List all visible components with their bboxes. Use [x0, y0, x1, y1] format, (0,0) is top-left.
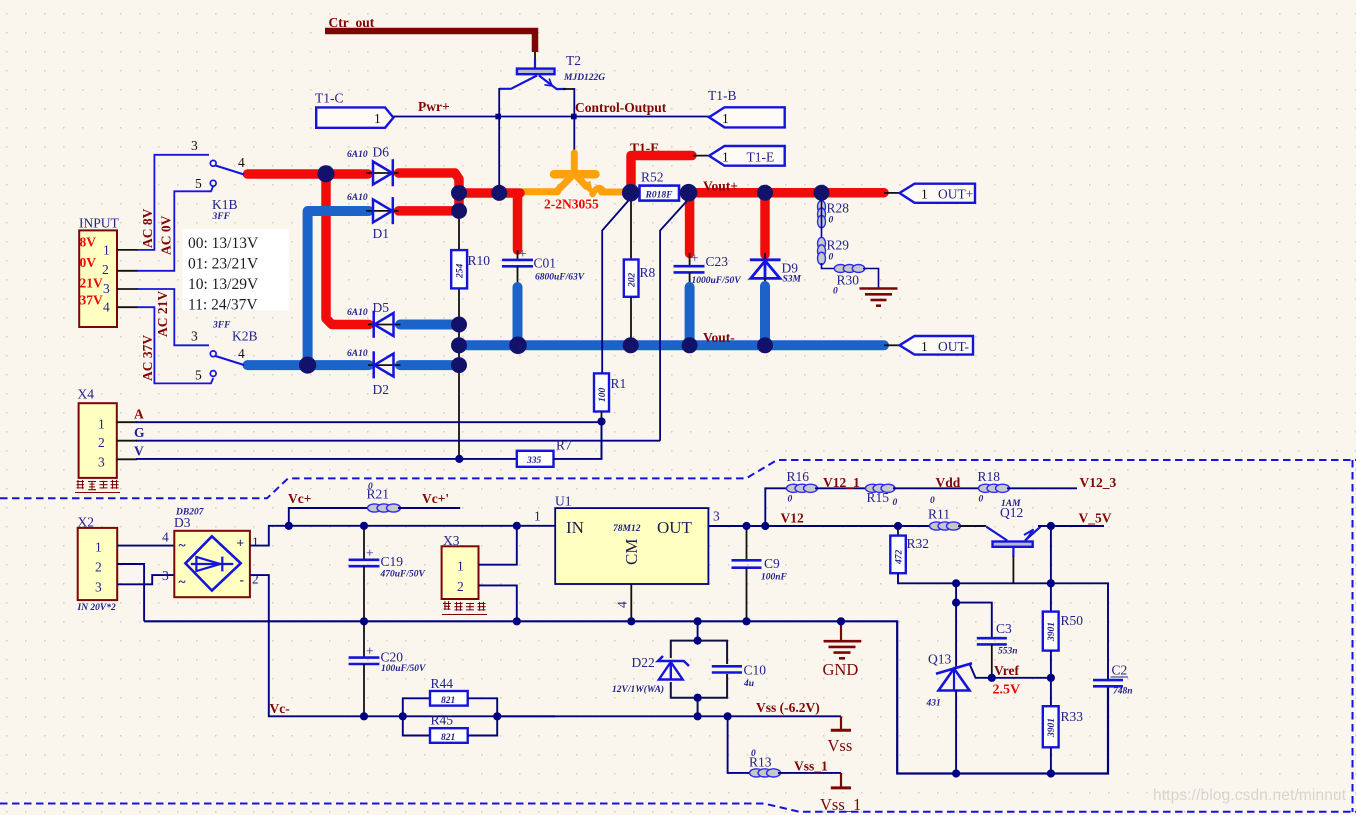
svg-text:0: 0 — [833, 287, 838, 297]
svg-text:R52: R52 — [641, 170, 664, 185]
svg-text:0V: 0V — [80, 255, 97, 270]
wire stub to T1-E entry — [693, 155, 710, 157]
capacitor C20 — [349, 621, 426, 716]
svg-text:821: 821 — [441, 733, 455, 743]
svg-text:R29: R29 — [827, 238, 850, 253]
svg-text:21V: 21V — [80, 276, 104, 291]
svg-text:Control-Output: Control-Output — [575, 100, 667, 115]
svg-text:CM: CM — [622, 539, 641, 565]
wire R8 bottom — [630, 297, 632, 345]
svg-text:3: 3 — [191, 329, 198, 344]
svg-text:R8: R8 — [640, 265, 656, 280]
junction node bus dots — [299, 165, 830, 374]
svg-text:2: 2 — [95, 560, 102, 575]
wire GND rail — [144, 621, 954, 773]
svg-text:472: 472 — [895, 550, 905, 566]
svg-text:AC 21V: AC 21V — [155, 291, 170, 337]
svg-text:0: 0 — [368, 482, 373, 492]
section separator dashed — [0, 460, 1356, 498]
connector X4 — [79, 403, 117, 478]
svg-text:D5: D5 — [373, 300, 390, 315]
wire Vss_1 — [778, 772, 841, 774]
svg-text:3: 3 — [713, 509, 720, 524]
svg-text:R50: R50 — [1061, 613, 1084, 628]
wire red bus D6/D1 cathodes — [399, 173, 521, 250]
wire D9 red lead — [760, 197, 770, 255]
svg-text:5: 5 — [195, 176, 202, 191]
svg-text:1: 1 — [95, 540, 102, 555]
wire R32 top stub — [897, 526, 899, 536]
wire R16 branch — [765, 488, 789, 526]
junction T2 emitter — [571, 114, 577, 120]
svg-text:Vref: Vref — [994, 663, 1019, 678]
resistor R29 (ferrite chain) — [818, 237, 826, 264]
svg-text:0: 0 — [930, 496, 935, 506]
svg-text:C23: C23 — [706, 254, 729, 269]
wire INPUT pin2 stub — [117, 270, 138, 272]
svg-text:Vss: Vss — [828, 736, 853, 755]
wire AC 0V — [137, 186, 213, 271]
relay switch K1B — [191, 138, 245, 222]
svg-text:R11: R11 — [928, 507, 950, 522]
sheet entry OUT+ — [900, 184, 976, 203]
svg-text:Q13: Q13 — [928, 652, 951, 667]
svg-text:R1: R1 — [611, 376, 627, 391]
svg-text:4: 4 — [238, 346, 245, 361]
svg-text:T1-B: T1-B — [708, 88, 737, 103]
wire Vc+' — [398, 507, 460, 509]
svg-text:V12_3: V12_3 — [1080, 475, 1117, 490]
svg-text:2: 2 — [102, 262, 109, 277]
svg-text:R44: R44 — [431, 676, 454, 691]
wire stub to OUT- — [884, 344, 900, 346]
svg-text:00: 13/13V: 00: 13/13V — [188, 235, 259, 252]
svg-text:-: - — [240, 572, 245, 587]
svg-text:2-2N3055: 2-2N3055 — [544, 197, 599, 212]
wire T1-E thick red — [631, 156, 692, 194]
sheet entry T1-E — [709, 146, 785, 166]
svg-text:6A10: 6A10 — [347, 349, 368, 359]
svg-text:+: + — [237, 536, 245, 551]
svg-text:3901: 3901 — [1047, 622, 1057, 642]
svg-text:6A10: 6A10 — [347, 150, 368, 160]
wire blue K2B bus to D2 — [248, 360, 370, 370]
svg-text:Pwr+: Pwr+ — [418, 99, 450, 114]
wire blue D5 out — [400, 320, 458, 330]
bridge rectifier D3 — [162, 530, 259, 598]
svg-text:https://blog.csdn.net/minnut: https://blog.csdn.net/minnut — [1153, 787, 1347, 804]
svg-text:R45: R45 — [431, 713, 454, 728]
capacitor C19 — [349, 527, 426, 622]
wire Vout+ thick red bus — [697, 188, 884, 198]
svg-text:R28: R28 — [827, 201, 850, 216]
svg-text:Vout-: Vout- — [703, 330, 735, 345]
resistor R16 (ferrite chain) — [787, 484, 818, 492]
svg-text:10: 13/29V: 10: 13/29V — [188, 276, 259, 293]
wire X4 pin2 stub — [117, 440, 137, 442]
diode D6 — [347, 145, 399, 187]
wire Vss rail — [497, 715, 841, 717]
svg-text:Vout+: Vout+ — [703, 179, 738, 194]
svg-text:37V: 37V — [80, 293, 104, 308]
svg-text:Vdd: Vdd — [936, 475, 961, 490]
svg-text:T2: T2 — [566, 53, 581, 68]
svg-text:Vc+': Vc+' — [422, 491, 449, 506]
wire X2 pin3 to bridge — [117, 575, 174, 584]
resistor R10 — [451, 250, 490, 288]
svg-text:335: 335 — [526, 456, 542, 466]
svg-text:IN 20V*2: IN 20V*2 — [77, 602, 117, 613]
svg-text:2: 2 — [252, 572, 259, 587]
wire sense A diagonal from node — [602, 198, 631, 373]
resistor R52 — [640, 186, 680, 201]
wire bridge minus to Vc- rail — [250, 575, 555, 716]
svg-text:4: 4 — [162, 530, 169, 545]
wire bottom rail right — [954, 686, 1108, 774]
svg-text:+: + — [519, 246, 527, 261]
svg-text:12V/1W(WA): 12V/1W(WA) — [612, 684, 664, 695]
resistor R11 (ferrite chain) — [930, 522, 961, 530]
svg-text:C9: C9 — [764, 556, 780, 571]
svg-text:6A10: 6A10 — [347, 193, 368, 203]
wire V12_1 — [815, 487, 868, 489]
capacitor C3 — [977, 621, 1018, 678]
svg-text:1: 1 — [921, 339, 928, 354]
wire X3 pin2 — [479, 585, 517, 621]
resistor R50 — [1043, 583, 1083, 678]
svg-text:OUT+: OUT+ — [938, 187, 973, 202]
svg-text:Vss (-6.2V): Vss (-6.2V) — [756, 700, 820, 715]
wire R28-R29 — [821, 196, 823, 240]
wire Vref line — [991, 677, 1051, 679]
wire node A to V line — [601, 422, 603, 459]
section separator dashed right edge — [1352, 460, 1354, 812]
svg-text:+: + — [691, 251, 699, 266]
svg-text:R30: R30 — [837, 273, 860, 288]
svg-text:T1-C: T1-C — [315, 91, 344, 106]
Q1 emitter arrowhead — [581, 181, 594, 196]
svg-text:U1: U1 — [555, 494, 572, 509]
power symbol Vss_1 — [820, 773, 861, 814]
svg-text:3: 3 — [103, 281, 110, 296]
resistor R8 — [624, 260, 656, 297]
svg-text:MJD122G: MJD122G — [563, 73, 605, 83]
svg-text:C01: C01 — [534, 256, 557, 271]
svg-text:100uF/50V: 100uF/50V — [381, 664, 426, 674]
diode D1 — [347, 193, 399, 241]
wire base stub black — [534, 52, 536, 60]
wire R1 bottom stub — [601, 412, 603, 422]
transistor Q13 (TL431) — [926, 652, 992, 774]
svg-text:01: 23/21V: 01: 23/21V — [188, 256, 259, 273]
svg-text:V12_1: V12_1 — [823, 475, 860, 490]
wire X4 pin3 stub — [117, 458, 137, 460]
wire R13 branch — [728, 716, 751, 773]
power symbol Vss — [828, 716, 853, 755]
svg-text:100nF: 100nF — [761, 573, 788, 583]
svg-text:0: 0 — [751, 749, 756, 759]
svg-text:254: 254 — [456, 264, 466, 280]
earth ground — [860, 289, 898, 306]
svg-text:3901: 3901 — [1047, 718, 1057, 738]
truth table note — [183, 229, 289, 313]
diode D5 — [347, 300, 401, 338]
transistor Q1 2N3055 (orange) — [522, 153, 626, 194]
capacitor C01 — [502, 246, 585, 288]
svg-text:3: 3 — [95, 580, 102, 595]
relay switch K2B — [191, 321, 258, 383]
wire net A — [136, 421, 602, 423]
wire red K1B to D6 — [248, 169, 369, 179]
svg-text:Vss_1: Vss_1 — [794, 759, 828, 774]
wire AC 8V — [137, 155, 209, 250]
svg-text:V: V — [134, 444, 144, 459]
wire red AC8V to D5 — [326, 175, 369, 325]
wire blue riser to D1 — [308, 211, 369, 364]
connector X2 — [78, 528, 118, 600]
svg-text:V12: V12 — [781, 511, 804, 526]
svg-text:3: 3 — [98, 455, 105, 470]
svg-text:6800uF/63V: 6800uF/63V — [535, 273, 585, 283]
sheet entry T1-B — [708, 88, 785, 127]
capacitor C2 — [1093, 663, 1133, 697]
svg-text:D1: D1 — [373, 226, 390, 241]
svg-text:431: 431 — [926, 699, 941, 709]
wire Ctr_out (thick maroon) — [325, 31, 535, 52]
svg-text:202: 202 — [628, 273, 638, 289]
svg-text:D2: D2 — [373, 382, 390, 397]
svg-text:0: 0 — [979, 495, 984, 505]
svg-text:R018F: R018F — [645, 191, 674, 201]
svg-text:INPUT: INPUT — [79, 216, 120, 231]
section separator dashed bottom — [0, 804, 1356, 812]
wire X2 pin1 to bridge — [117, 545, 174, 547]
regulator U1 78M12 — [534, 508, 720, 608]
svg-text:3: 3 — [162, 568, 169, 583]
svg-text:Vc+: Vc+ — [288, 491, 311, 506]
svg-text:4u: 4u — [743, 679, 754, 689]
svg-text:11: 24/37V: 11: 24/37V — [188, 297, 258, 314]
svg-text:Vc-: Vc- — [270, 701, 290, 716]
resistor R28 (ferrite chain) — [818, 201, 826, 228]
svg-text:R16: R16 — [787, 469, 810, 484]
svg-text:1: 1 — [98, 417, 105, 432]
svg-text:0: 0 — [829, 253, 834, 263]
svg-text:748n: 748n — [1113, 687, 1133, 697]
svg-text:4: 4 — [238, 155, 245, 170]
wire R32 bottom / feedback line — [898, 573, 1108, 680]
svg-text:R18: R18 — [978, 469, 1001, 484]
connector INPUT — [79, 230, 117, 327]
wire U1 pin4 — [630, 584, 632, 621]
resistor R44 — [403, 676, 497, 716]
resistor R1 — [594, 373, 626, 411]
wire D22 block top — [697, 621, 699, 640]
wire X3 pin1 — [479, 526, 517, 565]
svg-text:OUT-: OUT- — [938, 339, 970, 354]
wire sense G diagonal from node — [660, 198, 690, 441]
label 显示插座 (connector name) — [75, 480, 120, 493]
wire Vout- thick blue bus — [459, 340, 884, 350]
wire AC 21V — [137, 289, 209, 345]
svg-text:D3: D3 — [174, 515, 191, 530]
svg-text:T1-E: T1-E — [747, 150, 775, 165]
power symbol GND — [823, 621, 862, 679]
wire blue D2 out — [400, 360, 458, 370]
svg-text:D6: D6 — [373, 145, 390, 160]
capacitor C23 — [674, 251, 742, 289]
svg-text:AC 0V: AC 0V — [159, 215, 174, 255]
svg-text:C2: C2 — [1112, 663, 1128, 678]
svg-text:470uF/50V: 470uF/50V — [380, 570, 426, 580]
svg-text:1: 1 — [722, 150, 729, 165]
svg-text:1: 1 — [252, 535, 259, 550]
svg-text:3FF: 3FF — [212, 212, 231, 222]
wire V_5V — [1038, 525, 1104, 527]
svg-text:821: 821 — [441, 696, 455, 706]
svg-text:553n: 553n — [998, 647, 1018, 657]
svg-text:1: 1 — [374, 111, 381, 126]
svg-text:1AM: 1AM — [1001, 499, 1021, 509]
svg-text:~: ~ — [179, 538, 186, 553]
wire Vc+ branch — [289, 508, 370, 526]
wire Vdd — [893, 487, 981, 489]
wire Pwr+ down to bus — [498, 117, 500, 192]
resistor R21 (ferrite chain) — [368, 504, 401, 512]
svg-text:3FF: 3FF — [212, 321, 231, 331]
svg-text:K1B: K1B — [212, 197, 238, 212]
svg-text:S3M: S3M — [783, 275, 802, 285]
svg-text:OUT: OUT — [657, 518, 693, 537]
svg-text:1: 1 — [921, 187, 928, 202]
label 风扇插座 (connector name) — [442, 601, 487, 614]
wire D9 blue lead — [760, 286, 770, 344]
svg-text:1: 1 — [103, 243, 110, 258]
svg-text:0: 0 — [893, 498, 898, 508]
wire V5V down to feedback — [1050, 526, 1052, 583]
svg-text:0: 0 — [829, 216, 834, 226]
svg-text:4: 4 — [103, 300, 110, 315]
wire stub to OUT+ — [884, 192, 900, 194]
svg-text:V_5V: V_5V — [1079, 511, 1112, 526]
wire D22/C10 loop — [671, 641, 727, 717]
svg-text:C19: C19 — [381, 554, 404, 569]
junction thin-wire squares — [455, 417, 605, 463]
svg-text:8V: 8V — [80, 235, 97, 250]
wire INPUT pin4 stub — [117, 306, 138, 308]
resistor R15 (ferrite chain) — [866, 484, 896, 492]
svg-text:78M12: 78M12 — [613, 524, 641, 534]
wire C23 red lead — [685, 197, 695, 254]
diode D22 (zener) — [612, 655, 689, 695]
svg-text:R7: R7 — [556, 438, 572, 453]
svg-text:+: + — [366, 546, 374, 561]
svg-text:AC 8V: AC 8V — [140, 208, 155, 248]
svg-text:R33: R33 — [1061, 709, 1084, 724]
wire X2 pin2 to gnd rail — [117, 564, 144, 621]
wire V12 — [708, 525, 985, 527]
svg-text:5: 5 — [195, 368, 202, 383]
wire V12_3 — [1007, 487, 1077, 489]
transistor T2 — [499, 59, 574, 89]
wire C3 branch — [956, 603, 992, 639]
wire INPUT pin3 stub — [117, 288, 138, 290]
svg-text:GND: GND — [823, 660, 859, 679]
svg-text:2: 2 — [457, 579, 464, 594]
wire net G — [136, 440, 660, 442]
diode D2 — [347, 349, 401, 397]
svg-text:C10: C10 — [744, 663, 767, 678]
wire R30 to ground — [863, 269, 879, 289]
svg-text:1: 1 — [457, 559, 464, 574]
svg-text:6A10: 6A10 — [347, 308, 368, 318]
wire INPUT pin1 stub — [117, 249, 138, 251]
svg-text:4: 4 — [615, 601, 630, 608]
wire Q13 branch — [955, 583, 957, 667]
svg-text:C3: C3 — [996, 621, 1012, 636]
svg-text:1: 1 — [722, 111, 729, 126]
wire R10 branch vertical — [458, 211, 460, 459]
svg-text:AC 37V: AC 37V — [140, 335, 155, 381]
resistor R7 — [517, 438, 572, 467]
sheet entry T1-C — [315, 91, 393, 128]
wire net V left — [136, 458, 517, 460]
wire R29 to R30 — [822, 263, 837, 269]
resistor R45 — [403, 713, 497, 744]
svg-text:K2B: K2B — [232, 329, 258, 344]
junction squares bottom section — [285, 522, 1055, 778]
svg-text:D22: D22 — [632, 655, 655, 670]
svg-text:+: + — [366, 644, 374, 659]
resistor R32 — [890, 536, 929, 574]
svg-text:D9: D9 — [782, 261, 799, 276]
svg-text:3: 3 — [191, 138, 198, 153]
resistor R30 (ferrite chain) — [834, 265, 864, 273]
svg-text:R15: R15 — [867, 490, 890, 505]
connector X3 — [442, 546, 479, 599]
svg-text:1: 1 — [534, 509, 541, 524]
resistor R13 (ferrite chain) — [750, 769, 781, 777]
svg-text:~: ~ — [179, 574, 186, 589]
svg-text:1000uF/50V: 1000uF/50V — [692, 276, 742, 286]
resistor R33 — [1043, 678, 1083, 774]
svg-text:A: A — [134, 407, 144, 422]
wire net V right — [554, 422, 602, 459]
svg-text:R32: R32 — [907, 536, 930, 551]
diode D9 — [750, 253, 802, 288]
transistor Q12 — [958, 499, 1041, 583]
wire X4 pin1 stub — [117, 421, 137, 423]
wire bridge plus to Vc+ rail — [250, 526, 555, 546]
wire T2 collector leg — [498, 88, 500, 117]
wire T2 emitter to Q1 base — [573, 88, 575, 154]
svg-text:IN: IN — [566, 518, 584, 537]
svg-text:C20: C20 — [381, 650, 404, 665]
svg-text:X4: X4 — [78, 387, 95, 402]
svg-text:R10: R10 — [468, 253, 491, 268]
svg-text:2.5V: 2.5V — [993, 683, 1021, 698]
capacitor C9 — [732, 526, 788, 621]
wire C01 blue lead — [513, 287, 523, 344]
wire R8 top — [630, 197, 632, 260]
svg-text:2: 2 — [98, 435, 105, 450]
svg-text:0: 0 — [788, 495, 793, 505]
resistor R18 (ferrite chain) — [979, 484, 1010, 492]
junction T2 collector — [495, 114, 501, 120]
svg-text:G: G — [134, 425, 145, 440]
capacitor C10 — [712, 663, 766, 690]
wire C23 blue lead — [685, 287, 695, 344]
